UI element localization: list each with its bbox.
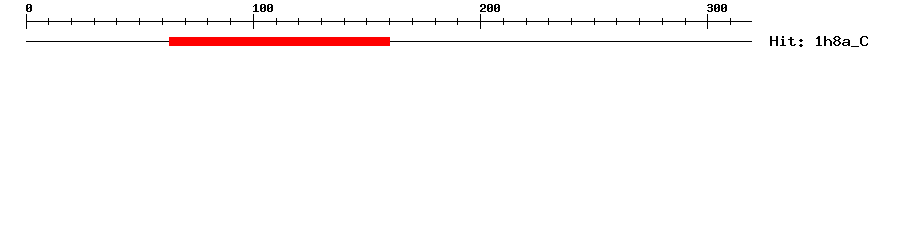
ruler minor tick 110 [276, 18, 277, 25]
hit label text "Hit: 1h8a_C" [770, 36, 868, 47]
ruler major tick 0 [26, 14, 27, 29]
ruler label 100 [253, 4, 273, 12]
ruler minor tick 130 [321, 18, 322, 25]
ruler minor tick 20 [71, 18, 72, 25]
background [0, 0, 900, 60]
ruler minor tick 60 [162, 18, 163, 25]
ruler minor tick 80 [207, 18, 208, 25]
ruler label 200 [480, 4, 500, 12]
ruler minor tick 180 [435, 18, 436, 25]
ruler minor tick 280 [662, 18, 663, 25]
ruler label 0 [26, 4, 32, 12]
ruler minor tick 90 [230, 18, 231, 25]
hit match region bar (residues ~63-160) [169, 37, 390, 46]
ruler minor tick 40 [116, 18, 117, 25]
ruler minor tick 210 [503, 18, 504, 25]
ruler minor tick 190 [457, 18, 458, 25]
ruler minor tick 310 [730, 18, 731, 25]
ruler minor tick 120 [298, 18, 299, 25]
ruler minor tick 140 [344, 18, 345, 25]
ruler minor tick 10 [48, 18, 49, 25]
ruler minor tick 160 [389, 18, 390, 25]
ruler minor tick 230 [548, 18, 549, 25]
ruler minor tick 240 [571, 18, 572, 25]
ruler major tick 300 [707, 14, 708, 29]
ruler major tick 200 [480, 14, 481, 29]
ruler label 300 [707, 4, 727, 12]
ruler minor tick 220 [526, 18, 527, 25]
ruler axis line (query coordinates 0-319) [26, 21, 752, 22]
ruler minor tick 150 [366, 18, 367, 25]
ruler minor tick 290 [685, 18, 686, 25]
ruler minor tick 170 [412, 18, 413, 25]
ruler minor tick 260 [616, 18, 617, 25]
ruler minor tick 250 [594, 18, 595, 25]
ruler minor tick 70 [185, 18, 186, 25]
ruler minor tick 270 [639, 18, 640, 25]
ruler minor tick 50 [139, 18, 140, 25]
ruler major tick 100 [253, 14, 254, 29]
hit alignment baseline [26, 41, 752, 42]
ruler minor tick 30 [94, 18, 95, 25]
